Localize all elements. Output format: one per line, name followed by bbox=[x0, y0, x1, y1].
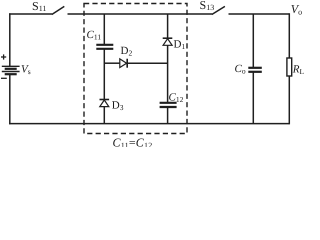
label battery plus bbox=[1, 54, 6, 59]
switch S13 bbox=[212, 6, 225, 14]
wire left vertical top bbox=[9, 13, 11, 66]
wire branch D3-to-bottom bbox=[103, 107, 105, 124]
wire right vertical top bbox=[288, 13, 290, 58]
diode D3 bbox=[100, 100, 110, 107]
wire bottom rail bbox=[9, 123, 289, 125]
resistor RL bbox=[287, 58, 292, 76]
wire branch D1-to-C12 bbox=[167, 45, 169, 102]
wire right vertical bottom bbox=[288, 76, 290, 124]
capacitor Co bbox=[248, 68, 261, 72]
wire middle rail right bbox=[128, 62, 168, 64]
wire branch C12-to-bottom bbox=[167, 108, 169, 124]
wire Co branch top bbox=[252, 14, 254, 67]
label battery minus bbox=[1, 77, 7, 79]
wire branch D1 top bbox=[167, 14, 169, 39]
switch S11 bbox=[52, 6, 65, 14]
diode D2 bbox=[120, 59, 127, 68]
wire top rail right bbox=[229, 13, 290, 15]
wire branch C11-to-D3 bbox=[103, 49, 105, 100]
wire Co branch bottom bbox=[252, 72, 254, 123]
capacitor C11 bbox=[96, 45, 113, 49]
dashed box C11=C12 bbox=[84, 4, 187, 134]
wire top rail mid bbox=[68, 13, 213, 15]
wire left vertical bottom bbox=[9, 75, 11, 125]
wire top rail left bbox=[9, 13, 52, 15]
wire middle rail left bbox=[104, 62, 120, 64]
battery Vs bbox=[2, 66, 20, 74]
diode D1 bbox=[163, 38, 173, 45]
wire branch C11 top bbox=[103, 14, 105, 44]
capacitor C12 bbox=[160, 103, 177, 107]
